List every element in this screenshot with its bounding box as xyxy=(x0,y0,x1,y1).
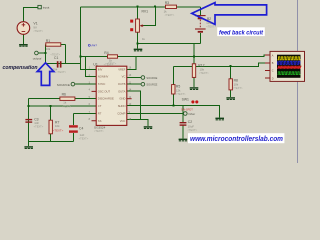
svg-text:SYNC: SYNC xyxy=(98,82,106,86)
svg-text:R3: R3 xyxy=(165,1,169,5)
svg-text:<TEXT>: <TEXT> xyxy=(50,53,60,57)
svg-text:<TEXT>: <TEXT> xyxy=(94,129,104,133)
svg-text:R1: R1 xyxy=(46,39,50,43)
svg-text:C1: C1 xyxy=(54,56,58,60)
svg-text:10k: 10k xyxy=(55,124,60,128)
svg-text:12k: 12k xyxy=(176,89,181,93)
svg-text:<TEXT>: <TEXT> xyxy=(34,125,44,129)
svg-text:SW-SPDT: SW-SPDT xyxy=(181,108,193,112)
svg-text:<TEXT>: <TEXT> xyxy=(53,129,64,133)
svg-text:Obar: Obar xyxy=(188,112,196,116)
svg-text:<TEXT>: <TEXT> xyxy=(199,71,209,75)
svg-text:RV1: RV1 xyxy=(142,9,149,13)
svg-text:D: D xyxy=(272,77,274,80)
svg-text:<TEXT>: <TEXT> xyxy=(176,92,186,96)
svg-text:output: output xyxy=(33,57,42,61)
svg-text:SW1: SW1 xyxy=(182,97,189,101)
svg-text:INV: INV xyxy=(98,67,103,71)
svg-text:SHDN: SHDN xyxy=(118,104,126,108)
svg-text:1nF: 1nF xyxy=(34,121,39,125)
svg-text:<TEXT>: <TEXT> xyxy=(107,62,117,66)
svg-text:V1: V1 xyxy=(33,21,37,25)
svg-text:DISCHARGE: DISCHARGE xyxy=(98,97,114,101)
svg-text:U1: U1 xyxy=(93,62,98,66)
svg-text:10uF: 10uF xyxy=(188,124,195,128)
svg-text:R4: R4 xyxy=(104,51,108,55)
svg-text:R6: R6 xyxy=(62,93,66,97)
svg-text:RT: RT xyxy=(98,112,102,116)
svg-text:OUTB: OUTB xyxy=(118,82,126,86)
svg-text:<TEXT>: <TEXT> xyxy=(56,70,66,74)
svg-text:VREF: VREF xyxy=(118,67,126,71)
svg-text:SG3524: SG3524 xyxy=(94,125,106,129)
svg-text:www.microcontrollerslab.com: www.microcontrollerslab.com xyxy=(190,136,283,143)
svg-text:10k: 10k xyxy=(46,47,51,51)
svg-text:COMP: COMP xyxy=(117,112,125,116)
svg-text:10k: 10k xyxy=(234,83,239,87)
svg-text:<TEXT>: <TEXT> xyxy=(79,136,89,140)
svg-text:<TEXT>: <TEXT> xyxy=(187,128,197,132)
svg-text:OSC OUT: OSC OUT xyxy=(98,89,111,93)
svg-text:SOURCE: SOURCE xyxy=(146,83,157,87)
svg-text:<TEXT>: <TEXT> xyxy=(33,29,43,33)
svg-text:compensation: compensation xyxy=(3,65,39,71)
svg-text:SOURCE: SOURCE xyxy=(57,83,70,87)
svg-text:GND: GND xyxy=(119,97,125,101)
svg-text:<TEXT>: <TEXT> xyxy=(165,13,175,17)
svg-text:SOURCE: SOURCE xyxy=(146,76,157,80)
svg-text:OUTA: OUTA xyxy=(118,89,125,93)
svg-text:C4: C4 xyxy=(79,127,83,131)
svg-text:<TEXT>: <TEXT> xyxy=(62,104,72,108)
svg-text:9V: 9V xyxy=(33,26,37,30)
svg-text:VC: VC xyxy=(122,75,126,79)
svg-text:feed back circuit: feed back circuit xyxy=(219,29,264,36)
svg-text:SS: SS xyxy=(98,119,102,123)
svg-text:VCC: VCC xyxy=(120,119,126,123)
svg-text:NONINV: NONINV xyxy=(98,75,109,79)
svg-text:<TEXT>: <TEXT> xyxy=(206,24,216,28)
svg-text:CT: CT xyxy=(98,104,102,108)
svg-text:10k: 10k xyxy=(200,68,205,72)
svg-text:C: C xyxy=(272,70,274,73)
svg-text:input: input xyxy=(43,6,50,10)
svg-text:<TEXT>: <TEXT> xyxy=(233,86,243,90)
svg-text:10V: 10V xyxy=(206,21,211,25)
svg-text:R4?: R4? xyxy=(92,44,98,48)
